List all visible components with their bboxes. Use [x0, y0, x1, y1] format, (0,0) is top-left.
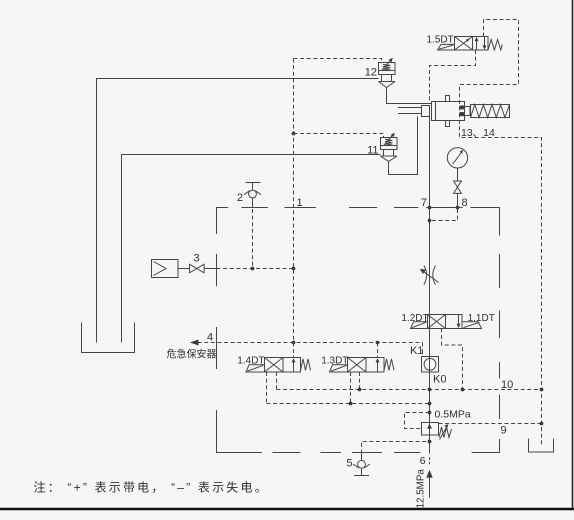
relay K1/K0 [422, 357, 439, 373]
gauge shutoff valve [454, 181, 462, 193]
svg-text:危急保安器: 危急保安器 [167, 347, 217, 360]
breather 5 [353, 454, 370, 476]
svg-text:1.3DT: 1.3DT [321, 355, 348, 366]
page frame bottom border [0, 508, 574, 510]
main supply line (solid) [429, 117, 431, 454]
supply dashed line [217, 268, 294, 270]
breather 2 [244, 183, 261, 208]
svg-text:1.2DT: 1.2DT [401, 313, 428, 324]
solenoid valve 1.5DT [438, 37, 503, 51]
regulator 0.5MPa [422, 423, 452, 440]
regulator pilot loop (dashed) [405, 413, 430, 429]
svg-text:K0: K0 [433, 374, 446, 386]
dashed drop to valve 1.4DT [293, 343, 295, 358]
wire valve 11 outlet [389, 117, 418, 175]
svg-text:11: 11 [367, 145, 378, 157]
junction dot pilot/valve11 [292, 132, 296, 136]
svg-text:5: 5 [346, 458, 352, 470]
pilot dashed 1.2DT to line 10 [442, 329, 463, 390]
pilot wire to valve 11 (dashed) [294, 134, 384, 138]
svg-text:9: 9 [501, 425, 507, 437]
valve 1.3DT drain dashes [350, 372, 352, 404]
svg-text:1.4DT: 1.4DT [237, 355, 264, 366]
svg-text:12.5MPa: 12.5MPa [415, 469, 426, 509]
enclosure dashed border bottom [273, 439, 500, 453]
svg-text:2: 2 [237, 192, 243, 204]
pressure gauge [447, 148, 467, 168]
svg-text:13、14: 13、14 [461, 127, 495, 139]
pilot line 1 (vertical dashed) [293, 59, 295, 343]
svg-text:1.1DT: 1.1DT [468, 313, 495, 324]
dashed drop to valve 1.3DT [377, 343, 379, 358]
drain header (dashed) [267, 403, 430, 405]
drain tank T2 [529, 439, 554, 453]
svg-text:0.5MPa: 0.5MPa [435, 409, 471, 421]
svg-text:6: 6 [420, 455, 426, 467]
line 10 (dashed) [277, 389, 542, 391]
svg-text:3: 3 [194, 253, 200, 265]
tank T1 [82, 323, 135, 353]
pilot path from 1.5DT to cylinder spring side (dashed) [460, 20, 542, 446]
svg-text:12: 12 [365, 67, 377, 79]
breather 2 dashed drop [252, 209, 254, 269]
svg-text:7: 7 [421, 197, 427, 209]
enclosure dashed border right [499, 254, 501, 419]
wire shutoff to node 8 [457, 193, 459, 207]
svg-text:K1: K1 [410, 345, 423, 357]
throttle valve [422, 266, 439, 285]
relief valve 11 [381, 134, 398, 162]
valve 1.4DT drain dashes [266, 372, 268, 404]
svg-text:注： “+” 表示带电， “–” 表示失电。: 注： “+” 表示带电， “–” 表示失电。 [34, 480, 269, 495]
piston seal marks [460, 106, 465, 110]
svg-text:4: 4 [207, 332, 213, 344]
supply direction arrow [426, 470, 432, 478]
pilot path from 1.5DT to cylinder rod side (dashed) [430, 50, 476, 101]
solenoid valve 1.2DT / 1.1DT [411, 315, 482, 329]
enclosure dashed border left [217, 254, 262, 453]
cylinder 13,14 [398, 96, 510, 127]
node 7 [428, 206, 432, 210]
svg-text:10: 10 [501, 379, 513, 391]
enclosure dashed border top [217, 208, 500, 236]
wire gauge to shutoff [457, 168, 459, 181]
wire valve 12 outlet [387, 88, 432, 104]
line 4 emergency trip (dashed) [191, 342, 423, 344]
breather 5 dashed to main line [362, 442, 430, 454]
dashed drop to K1 [422, 343, 424, 357]
svg-text:1.5DT: 1.5DT [427, 34, 454, 45]
page frame right border [572, 0, 574, 509]
node 8 [456, 206, 460, 210]
solenoid valve 1.4DT [246, 358, 311, 373]
wire pipe A (tank to valve 12) [97, 79, 379, 343]
line 9 (dashed) [439, 423, 542, 425]
pilot wire to valve 12 (dashed) [294, 59, 382, 63]
air supply unit 3 [152, 260, 217, 278]
dashed node 8 bypass to main line [430, 209, 458, 221]
wire pipe B (tank to valve 11) [122, 155, 381, 343]
relief valve 12 [379, 59, 396, 88]
solenoid valve 1.3DT [330, 358, 395, 373]
